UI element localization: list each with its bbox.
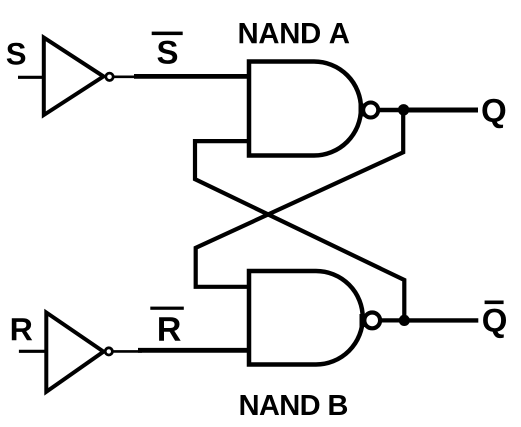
junction node Q-bar — [399, 315, 410, 326]
inverter U2 (R input) — [46, 313, 103, 392]
label R — [12, 318, 32, 340]
label Q-bar — [483, 309, 506, 339]
inverter U1 output bubble — [106, 73, 113, 80]
wire: NAND A bubble to node Q — [379, 108, 404, 112]
net R-bar label — [159, 317, 181, 340]
wire: NAND B bubble to node Q-bar — [380, 318, 404, 322]
label Q-bar (overbar) — [485, 301, 504, 305]
NAND gate B body — [249, 271, 363, 365]
wire: cross-coupling node Q-bar to NAND A input 2 — [195, 141, 404, 321]
net S-bar label — [158, 41, 178, 64]
wire: node Q to Q label — [404, 108, 478, 113]
wire: cross-coupling node Q to NAND B input 1 — [196, 109, 404, 286]
net R-bar label (overbar) — [150, 307, 184, 310]
wire: R-bar to NAND B input 2 — [138, 348, 251, 353]
NAND A output bubble — [363, 103, 378, 118]
wire: inverter U2 output (thin lead) — [112, 350, 142, 353]
inverter U1 (S input) — [44, 38, 104, 115]
wire: S-bar to NAND A input 1 — [134, 74, 251, 79]
label NAND A — [240, 23, 350, 43]
label Q — [482, 99, 505, 129]
inverter U2 output bubble — [105, 348, 112, 355]
wire: NAND B tip to bubble bridge — [360, 314, 367, 327]
wire: R input stub — [19, 350, 46, 353]
label NAND B — [241, 395, 348, 415]
wire: inverter U1 output (thin lead) — [112, 76, 138, 79]
wire: NAND A tip to bubble bridge — [359, 104, 366, 117]
wire: S input stub — [18, 76, 44, 79]
wire: node Q-bar to Q-bar label — [404, 318, 478, 322]
label S — [7, 43, 26, 65]
NAND B output bubble — [364, 313, 380, 329]
junction node Q — [398, 104, 409, 115]
net S-bar label (overbar) — [152, 32, 183, 35]
NAND gate A body — [249, 62, 361, 156]
